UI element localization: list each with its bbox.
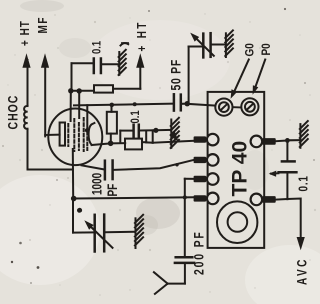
svg-text:0.1: 0.1 [129, 110, 142, 123]
svg-text:+ HT: + HT [19, 20, 32, 46]
svg-text:50 PF: 50 PF [168, 59, 184, 90]
svg-text:0.1: 0.1 [298, 175, 311, 191]
svg-text:G0: G0 [244, 43, 257, 56]
svg-text:AVC: AVC [294, 257, 310, 285]
svg-text:CHOC: CHOC [5, 95, 21, 130]
svg-text:TP 40: TP 40 [229, 141, 252, 197]
svg-text:200 PF: 200 PF [191, 230, 207, 275]
svg-text:+ HT: + HT [136, 20, 149, 51]
svg-text:PF: PF [104, 184, 120, 197]
svg-text:0.1: 0.1 [91, 41, 104, 54]
svg-text:MF: MF [37, 16, 50, 33]
svg-text:P0: P0 [260, 43, 273, 55]
svg-text:1000: 1000 [89, 172, 105, 195]
